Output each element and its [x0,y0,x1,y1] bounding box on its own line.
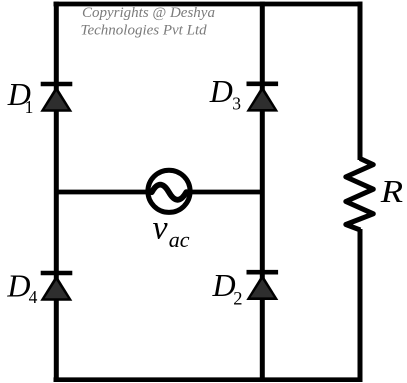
svg-text:3: 3 [232,93,241,113]
diode D3 (middle upper, pointing up) [246,84,278,112]
diode D1 (left upper, pointing up) [40,84,72,112]
svg-text:1: 1 [25,97,34,117]
svg-text:D: D [209,73,233,109]
svg-text:D: D [212,267,236,303]
diode D2 (middle lower, pointing up) [246,272,278,300]
svg-text:Technologies Pvt Ltd: Technologies Pvt Ltd [81,23,208,39]
wire: middle vertical branch (D3 / D2) [260,2,265,382]
svg-text:D: D [6,267,30,303]
wire: right vertical upper segment (top node to resistor R) [358,2,363,160]
wire: middle horizontal (AC source branch between left and middle verticals) [56,190,262,195]
AC source vac (circle with sine) [148,170,190,212]
svg-text:Copyrights @ Deshya: Copyrights @ Deshya [82,5,215,21]
svg-text:R: R [380,175,404,209]
svg-text:v: v [153,210,169,247]
svg-text:ac: ac [169,227,190,252]
wire: bottom horizontal (node between D4/D2 anodes and R bottom) [54,377,363,382]
wire: right vertical lower segment (resistor R to bottom node) [358,229,363,382]
wire: top horizontal (node between D1/D3 cathodes and R top) [54,2,363,7]
resistor R (zigzag) [346,159,374,231]
svg-text:2: 2 [233,290,242,310]
wire: left vertical branch (D1 / D4) [54,2,59,382]
svg-text:4: 4 [29,287,38,307]
diode D4 (left lower, pointing up) [40,273,72,301]
